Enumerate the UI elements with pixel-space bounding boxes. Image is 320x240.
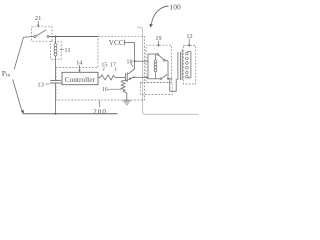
ground	[123, 100, 131, 102]
wire input upper diagonal	[14, 37, 34, 70]
node top rail	[55, 36, 57, 38]
svg-text:VCC: VCC	[109, 39, 124, 47]
transistor Q18	[124, 73, 126, 81]
wire to resistor 16	[123, 79, 127, 81]
wire controller to resistor 15	[98, 76, 101, 78]
leader 200	[98, 100, 100, 107]
leader 21	[37, 21, 39, 26]
label 11	[60, 49, 64, 51]
dashed box switch 21	[32, 27, 53, 41]
leader 12	[188, 39, 190, 45]
wire left vertical in 12	[181, 49, 183, 80]
wire left vertical in 19	[147, 54, 149, 79]
bottom rail wire	[23, 113, 118, 115]
dashed module 200 outline	[56, 36, 145, 100]
svg-text:21: 21	[35, 15, 42, 22]
inductor L11	[55, 37, 57, 44]
node VCC	[134, 60, 136, 62]
leader 14	[79, 65, 81, 71]
wire capacitor to bottom rail	[55, 83, 57, 114]
svg-text:16: 16	[102, 87, 108, 93]
transformer core	[177, 52, 179, 80]
dashed box secondary 12	[183, 46, 195, 85]
resistor R16	[121, 80, 125, 91]
node bottom rail	[55, 113, 57, 115]
wire VCC down	[134, 43, 136, 62]
capacitor C13	[50, 79, 61, 81]
wire source to transformer	[134, 76, 147, 78]
svg-text:Controller: Controller	[65, 75, 96, 84]
wire right vertical in 12	[190, 52, 192, 78]
top rail wire	[49, 36, 98, 38]
node contact bottom	[167, 78, 169, 80]
grey page border corner (bottom right frame)	[137, 27, 199, 114]
resistor R15	[101, 75, 116, 80]
switch S19 bottom	[160, 78, 162, 80]
dashed box relay 19	[146, 45, 172, 82]
relay coil 19	[155, 54, 157, 60]
secondary winding 12	[187, 51, 191, 53]
wire L jog below 19	[170, 79, 177, 92]
dashed box output contact	[140, 83, 172, 95]
dashed box inductor 11	[51, 42, 62, 60]
wire VCC node to transformer	[135, 60, 149, 62]
wire resistor to gate	[115, 76, 125, 78]
svg-text:13: 13	[37, 82, 44, 89]
arrow to 100	[151, 6, 168, 24]
controller U14 box	[62, 72, 98, 84]
wire top in 19	[148, 53, 157, 55]
svg-text:200: 200	[93, 108, 107, 116]
wire right vertical in 19	[167, 61, 169, 79]
wire inductor to capacitor	[55, 56, 57, 81]
svg-text:100: 100	[170, 3, 181, 12]
switch S19 top	[157, 54, 159, 56]
wire resistor 16 to ground	[123, 91, 127, 101]
wire input lower diagonal	[13, 79, 23, 112]
wire bottom in 19	[147, 77, 149, 79]
leader 19	[158, 41, 160, 46]
svg-text:11: 11	[64, 47, 70, 54]
VCC bracket	[123, 40, 125, 46]
switch S21	[34, 36, 36, 38]
node source	[133, 76, 135, 78]
node primary return	[146, 76, 148, 78]
